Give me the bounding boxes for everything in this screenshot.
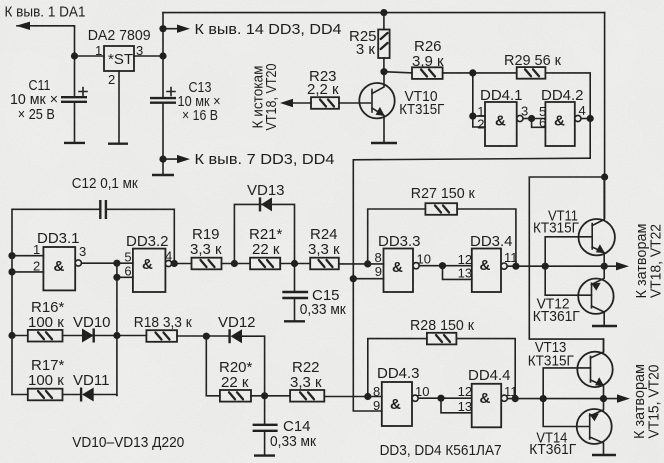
node junction R27 right (512, 263, 519, 270)
transistor VT12 (578, 279, 613, 314)
wire DD3.1 pin1 (12, 255, 43, 257)
wire R28 right leg (456, 339, 515, 399)
node junction R28 left / DD4.3 pin8 (364, 393, 371, 400)
wire main row to R19 (172, 263, 192, 265)
wire DD4.1 input tie (473, 73, 485, 127)
wire to pin 14 arrow (163, 28, 178, 30)
transistor VT11 (579, 219, 615, 255)
wire tie to R18 (117, 335, 146, 337)
capacitor C12 plates (100, 200, 106, 219)
node junction DD3.1 pin1 (8, 252, 15, 259)
wire R16 to VD10 (63, 335, 83, 337)
diode VD13 (261, 197, 272, 211)
wire R21 to R24 (280, 263, 310, 265)
capacitor C13 plus sign (167, 88, 175, 96)
wire C14 bottom (264, 431, 266, 455)
node junction for pin14 arrow (159, 25, 166, 32)
wire R26 to DD4.1 node (443, 72, 473, 74)
node junction tie/pin6 (113, 274, 120, 281)
ground bar VT12 collector (592, 325, 617, 327)
arrowhead pin 7 (177, 155, 190, 163)
wire DD4.1 out to DD4.2 tie (523, 118, 532, 120)
node junction supply / VT13 branch (601, 173, 608, 180)
wire R25 bottom to collector node (383, 58, 385, 72)
wire C12 left leg (12, 209, 100, 394)
node junction DD4.2 inputs (528, 115, 535, 122)
wire DD3.3 out to DD3.4 pin12 (419, 265, 472, 267)
transistor VT13 (577, 352, 612, 387)
wire VD12 right and down (242, 336, 265, 396)
node junction R25 top (380, 9, 387, 16)
wire base tie VT11 VT12 (545, 237, 592, 295)
arrowhead to pin1 DA1 (16, 22, 30, 30)
wire R20 to node (251, 395, 290, 397)
node junction R18/VD12/R20 (203, 333, 210, 340)
node junction R27 left / DD3.3 inputs (364, 260, 371, 267)
wire C15 bottom (294, 298, 296, 321)
node junction DD3.2 inputs (113, 260, 120, 267)
capacitor C14 plates (253, 425, 278, 431)
wire DD4.3 out to DD4.4 pin12 (418, 397, 472, 399)
wire DD3.4 out to emitters (507, 265, 604, 267)
wire DD3.4 pin13 elbow (443, 266, 472, 280)
wire R22 to DD4.3 node (324, 396, 382, 398)
wire DD3.3 pin9 (353, 278, 383, 280)
node junction DD3.4 inputs (439, 262, 446, 269)
gate DD3.4 box (472, 249, 501, 293)
wire right supply vertical (604, 13, 606, 219)
gate DD4.1 box (485, 102, 517, 146)
wire C11 bottom (74, 102, 76, 142)
wire left vertical to R17 (12, 394, 28, 396)
ground bar C13 (152, 174, 174, 176)
wire R27 right leg (457, 209, 516, 266)
output bubble DD4.2 pin4 (575, 115, 581, 121)
node junction emitters VT13/VT14 (600, 395, 607, 402)
diode VD10 (82, 329, 94, 343)
resistor R23 (311, 97, 339, 109)
wire arrow to R23 (292, 102, 311, 104)
wire DD3.1 pin2 (12, 271, 43, 273)
wire C14 down (264, 396, 266, 424)
wire DD4.2 out to loop (581, 118, 590, 120)
node junction C12 leg (171, 260, 178, 267)
wire left vertical to R16 (12, 335, 28, 337)
resistor R26 (412, 67, 443, 79)
node junction VT10 collector / R26 (380, 68, 387, 75)
wire R23 to VT10 base (339, 102, 371, 104)
wire R18 to VD12 node (177, 335, 230, 337)
wire R27 left leg (368, 209, 426, 264)
node junction DD3.3 pin9 from DD4 loop (350, 275, 357, 282)
wire DD4.2 input tie (532, 119, 546, 128)
wire DD3.3 pin8 (368, 263, 384, 265)
node junction DD4.4 inputs (437, 395, 444, 402)
wire VD10 to tie (94, 335, 117, 337)
wire DD3.2 pin6 elbow and down to diode rows (117, 263, 133, 395)
wire DA2 pin 2 down (118, 71, 120, 144)
wire DA2 pin 3 (134, 55, 163, 57)
node junction R20/R22/C14 (261, 392, 268, 399)
wire top supply rail (163, 12, 605, 14)
resistor R28 (427, 333, 457, 345)
arrowhead к затворам VT15 VT20 (604, 398, 619, 400)
ground bar C15 (284, 320, 305, 322)
wire: arrow to pin 1 DA1 (17, 26, 75, 97)
gate DD4.4 box (472, 384, 502, 428)
output bubble DD4.4 pin11 (501, 395, 507, 401)
arrowhead к затворам VT18 VT22 (604, 265, 617, 267)
resistor R25 vertical (378, 30, 389, 59)
resistor R16 (28, 330, 63, 342)
node junction VD13 right / C15 (291, 260, 298, 267)
wire DD4 loop bottom to oscillator (353, 158, 590, 411)
node junction DD3.1 pin2 (8, 268, 15, 275)
resistor R22 (290, 390, 324, 402)
gate DD3.2 box (133, 249, 166, 292)
output bubble DD3.3 pin10 (413, 263, 419, 269)
node junction DA2 pin3 / C13 (159, 52, 166, 59)
wire DD4.4 pin13 elbow (441, 398, 472, 413)
node junction VD10/R18 tie (113, 332, 120, 339)
wire VT13 collector supply branch (529, 177, 604, 352)
capacitor C11 plus sign (79, 88, 87, 96)
node junction R16 row (8, 332, 15, 339)
gate DD3.3 box (384, 249, 414, 293)
ground bar C14 (254, 454, 275, 456)
wire R24 to DD3.3 node (339, 263, 368, 265)
resistor R20 (220, 390, 251, 402)
arrowhead pin 14 (177, 25, 190, 33)
wire R19 to R21 (222, 263, 251, 265)
node junction emitters VT11/VT12 (601, 263, 608, 270)
resistor R17 (28, 389, 63, 401)
node junction VT11/VT12 base tie (542, 263, 549, 270)
wire C13/DA2 vertical (162, 13, 164, 99)
regulator DA2 box (104, 46, 134, 71)
wire DD4.4 out to emitters (507, 398, 603, 400)
node junction R28 right (512, 395, 519, 402)
node junction DD4.1 pin1 (469, 113, 476, 120)
wire to pin 7 arrow (163, 158, 178, 160)
wire collector node to R26 (384, 72, 412, 73)
resistor R27 (425, 203, 457, 215)
resistor R19 (192, 258, 222, 270)
output bubble DD4.3 pin10 (412, 395, 418, 401)
wire R20 branch vertical (206, 336, 220, 396)
wire VD11 to tie (94, 394, 117, 397)
transistor VT14 (577, 409, 612, 444)
output bubble DD3.2 pin4 (165, 260, 171, 266)
ground bar VT14 collector (592, 454, 616, 456)
wire top rail to R25 (383, 13, 385, 30)
wire DD3.1 out to DD3.2 pin5 (81, 262, 132, 264)
transistor VT10 (359, 83, 394, 118)
wire R29 right and down (545, 73, 590, 158)
node junction for pin7 arrow (159, 156, 166, 163)
node junction VT13/VT14 base tie (540, 395, 547, 402)
wire R17 to VD11 (63, 394, 82, 396)
output bubble DD4.1 pin3 (517, 115, 523, 121)
wire base tie VT13 VT14 (543, 368, 590, 427)
resistor R24 (310, 258, 339, 270)
node junction R26/R29/DD4.1 (469, 69, 476, 76)
arrowhead К истокам (280, 99, 293, 107)
gate DD4.2 box (545, 102, 574, 146)
wire C15 down (294, 264, 296, 292)
gate DD4.3 box (382, 382, 412, 426)
capacitor C15 plates (282, 292, 308, 298)
diode VD11 (82, 388, 94, 402)
resistor R21 (250, 258, 280, 270)
node junction DA2 pin1 (71, 52, 78, 59)
wire DA2 pin 1 (75, 55, 105, 57)
output bubble DD3.1 pin3 (75, 260, 81, 266)
resistor R18 (146, 330, 177, 342)
node junction VD13 left (231, 260, 238, 267)
wire node to R29 (473, 72, 517, 74)
wire C12 right leg (106, 209, 174, 263)
wire R28 left leg (368, 339, 427, 397)
wire VD13 loop (234, 204, 294, 263)
diode VD12 (231, 329, 243, 343)
capacitor C11 plates (61, 97, 87, 102)
resistor R29 (517, 67, 546, 79)
ground bar VT10 emitter (371, 142, 397, 144)
node junction pin4 / loop (587, 115, 594, 122)
gate DD3.1 box (43, 247, 75, 290)
ground bar C11 (64, 142, 85, 144)
capacitor C13 plates (150, 98, 176, 103)
output bubble DD3.4 pin11 (501, 263, 507, 269)
ground bar DA2 pin 2 (108, 142, 128, 144)
wire C13 bottom (162, 103, 164, 175)
